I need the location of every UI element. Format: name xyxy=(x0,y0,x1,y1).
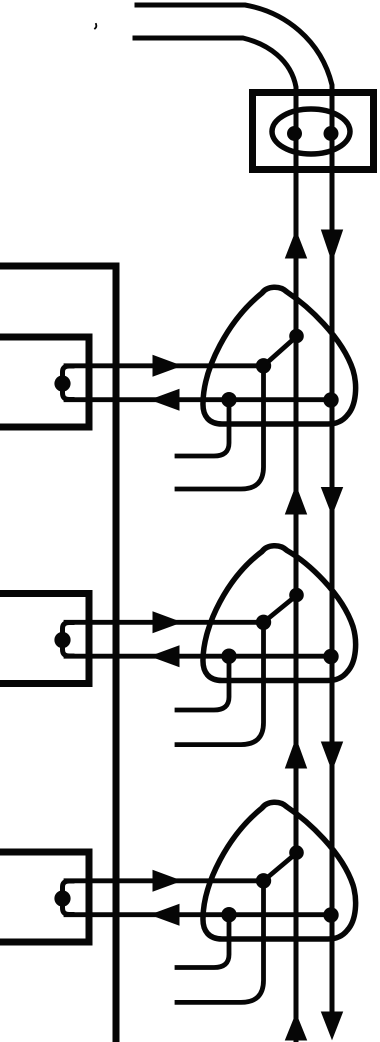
valve port bracket 2 (small rounded bracket) xyxy=(63,623,73,657)
junction dot on port bracket 2 xyxy=(55,632,70,647)
node B1 xyxy=(256,359,270,373)
coupler box U1 xyxy=(253,93,374,170)
node C1 xyxy=(222,393,236,407)
valve port bracket 3 (small rounded bracket) xyxy=(63,881,73,915)
arrowhead left on return branch 3 xyxy=(151,905,179,926)
arrowhead down on down line (set 4) xyxy=(322,1012,343,1039)
junction enclosure blob 1 (rounded triangle) xyxy=(203,287,356,424)
wire: drop line from node B2 with hook 2b xyxy=(177,622,264,744)
node C3 xyxy=(222,908,236,922)
wire: supply branch line 3 (to node B3) xyxy=(66,878,263,883)
arrowhead down on down line (set 3) xyxy=(322,742,343,770)
arrowhead down on down line (set 1) xyxy=(322,230,343,261)
wire: left manifold bracket 3 xyxy=(2,852,89,942)
wire: supply branch line 1 (to node B1) xyxy=(66,363,263,368)
arrowhead right on supply branch 2 xyxy=(153,612,181,633)
valve port bracket 1 (small rounded bracket) xyxy=(63,366,73,400)
arrowhead right on supply branch 3 xyxy=(153,871,181,892)
junction dot on port bracket 3 xyxy=(55,891,70,906)
node C2 xyxy=(222,649,236,663)
arrowhead left on return branch 1 xyxy=(151,390,179,411)
node A3 xyxy=(290,846,304,860)
junction enclosure blob 2 (rounded triangle) xyxy=(203,546,356,681)
node B2 xyxy=(256,615,270,629)
node D1 xyxy=(324,393,338,407)
wire: drop line from node C2 with hook 2a xyxy=(177,656,229,710)
wire: diagonal link B2-A2 xyxy=(264,595,298,622)
wire: return branch line 2 (node D2 to bracket) xyxy=(66,654,331,659)
junction enclosure blob 3 (rounded triangle) xyxy=(203,802,356,939)
node D2 xyxy=(324,649,338,663)
wire: lower feed line curving into up riser (left riser) xyxy=(135,38,296,1040)
wire: drop line from node C1 with hook 1a xyxy=(177,400,229,456)
arrowhead left on return branch 2 xyxy=(151,646,179,667)
wire: drop line from node B3 with hook 3b xyxy=(177,881,264,1003)
arrowhead up on riser line (set 3) xyxy=(286,739,307,768)
wire: return branch line 1 (node D1 to bracket) xyxy=(66,397,331,402)
node D3 xyxy=(324,908,338,922)
wire: diagonal link B3-A3 xyxy=(264,853,298,881)
arrowhead up on riser line (set 2) xyxy=(286,486,307,514)
junction dot on port bracket 1 xyxy=(55,376,70,391)
wire: left manifold bracket 1 xyxy=(2,337,89,427)
wire: return branch line 3 (node D3 to bracket) xyxy=(66,912,331,917)
wire: drop line from node C3 with hook 3a xyxy=(177,915,229,968)
node B3 xyxy=(256,874,270,888)
arrowhead up on riser line (set 1) xyxy=(286,231,307,258)
arrowhead down on down line (set 2) xyxy=(322,488,343,515)
wire: diagonal link B1-A1 xyxy=(264,336,298,366)
node A2 xyxy=(290,588,304,602)
contact dot left in U1 xyxy=(288,127,302,141)
coupler ellipse inside U1 xyxy=(272,109,350,154)
wire: main distribution bus (long vertical with top stub) xyxy=(2,266,116,1039)
wire: left manifold bracket 2 xyxy=(2,594,89,684)
node A1 xyxy=(290,329,304,343)
arrowhead right on supply branch 1 xyxy=(153,356,181,377)
arrowhead up on riser line (set 4) xyxy=(286,1014,307,1040)
wire: upper feed line curving into down line (right riser) xyxy=(137,5,332,1013)
stray ink speck xyxy=(95,24,96,29)
wire: supply branch line 2 (to node B2) xyxy=(66,620,263,625)
contact dot right in U1 xyxy=(324,127,338,141)
wire: drop line from node B1 with hook 1b xyxy=(177,366,264,489)
